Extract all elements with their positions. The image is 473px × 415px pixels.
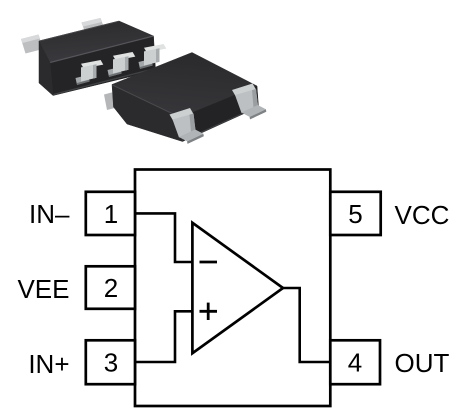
- wire pin3 to non-inverting input: [136, 311, 194, 362]
- lead A: [170, 108, 204, 144]
- pin 1 box: [86, 192, 135, 235]
- body top face: [39, 21, 154, 63]
- bottom edge reflection: [184, 108, 256, 141]
- body front-right face: [181, 86, 259, 142]
- svg-text:VEE: VEE: [17, 274, 69, 304]
- wire pin1 to inverting input: [136, 213, 194, 262]
- body left end face: [39, 41, 53, 96]
- front ridge highlight: [50, 36, 154, 63]
- package photo: right SOT-23-5 (2-lead side view): [104, 53, 266, 144]
- pin 5 box: [330, 192, 380, 235]
- lead L1: [76, 60, 104, 85]
- body front-left face: [112, 85, 183, 142]
- IC body outline: [135, 170, 330, 407]
- svg-text:3: 3: [104, 348, 118, 378]
- body top face: [112, 53, 257, 118]
- svg-text:IN–: IN–: [29, 199, 70, 229]
- op-amp U1 triangle: [192, 223, 283, 353]
- svg-text:4: 4: [348, 348, 362, 378]
- svg-text:IN+: IN+: [28, 349, 69, 379]
- far-side lead tab: [104, 92, 117, 110]
- back lead tip T2: [82, 18, 106, 35]
- pin 3 box: [86, 340, 135, 384]
- pin 4 box: [330, 340, 380, 384]
- back lead tip T1: [21, 35, 43, 54]
- svg-text:2: 2: [104, 273, 118, 303]
- body front face: [50, 36, 156, 96]
- near corner edge: [181, 118, 183, 141]
- back edge highlight: [40, 21, 119, 41]
- lead B: [232, 84, 266, 120]
- non-inverting input sign (plus): [200, 303, 218, 320]
- pin 2 box: [86, 266, 135, 309]
- package photo: left SOT-23-5 (3-lead side view): [21, 18, 166, 96]
- bottom edge reflection: [54, 69, 156, 95]
- inverting input sign (minus): [200, 261, 218, 264]
- svg-text:VCC: VCC: [395, 200, 450, 230]
- lead L2: [108, 52, 136, 77]
- wire op-amp output to pin 4: [281, 288, 330, 362]
- front-left ridge highlight: [113, 85, 181, 118]
- svg-text:OUT: OUT: [395, 348, 450, 378]
- svg-text:1: 1: [104, 199, 118, 229]
- svg-text:5: 5: [348, 199, 362, 229]
- lead L3: [139, 44, 167, 69]
